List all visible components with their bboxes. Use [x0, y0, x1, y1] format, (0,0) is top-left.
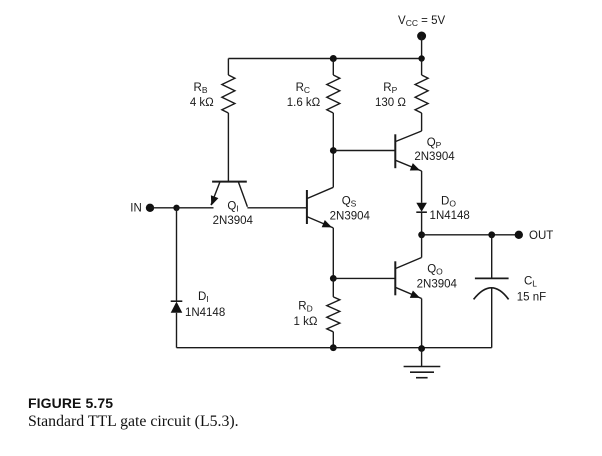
label QS 2N3904 — [330, 196, 371, 223]
junction QO emitter / ground — [418, 345, 425, 352]
ground — [404, 348, 441, 378]
capacitor CL — [474, 235, 509, 348]
transistor QS base bar — [306, 190, 308, 224]
wire VCC stem — [421, 36, 423, 59]
wire output row — [422, 234, 519, 236]
junction output / CL — [488, 231, 495, 238]
wire junction to QI emitter — [177, 207, 214, 209]
junction DO / QO collector / OUT — [418, 231, 425, 238]
svg-text:QO: QO — [427, 264, 443, 277]
svg-text:2N3904: 2N3904 — [213, 215, 254, 227]
junction QS emitter / RD / QO base — [330, 275, 337, 282]
svg-text:QI: QI — [227, 201, 238, 214]
svg-text:2N3904: 2N3904 — [330, 211, 371, 223]
label OUT — [529, 230, 553, 242]
output terminal OUT — [515, 231, 523, 239]
svg-text:15 nF: 15 nF — [517, 292, 546, 304]
svg-text:2N3904: 2N3904 — [417, 279, 458, 291]
transistor QP collector — [395, 131, 421, 142]
transistor QS collector — [307, 151, 333, 199]
label IN — [130, 203, 142, 215]
caption figure number — [28, 395, 113, 411]
label CL 15 nF — [517, 276, 546, 304]
svg-text:DI: DI — [198, 291, 209, 304]
svg-text:RC: RC — [296, 82, 310, 95]
diode DO — [416, 203, 427, 235]
label QO 2N3904 — [417, 264, 458, 291]
wire top rail — [228, 58, 421, 60]
svg-text:2N3904: 2N3904 — [414, 151, 455, 163]
wire DI top — [176, 208, 178, 301]
junction IN / DI — [173, 205, 179, 211]
label VCC = 5V — [398, 15, 445, 28]
resistor RB — [222, 59, 235, 182]
label DI 1N4148 — [185, 291, 225, 319]
svg-text:1 kΩ: 1 kΩ — [294, 316, 318, 328]
wire bottom rail — [177, 347, 492, 349]
transistor QO collector — [395, 235, 421, 269]
transistor Q1 emitter — [211, 182, 220, 205]
svg-text:VCC = 5V: VCC = 5V — [398, 15, 445, 28]
svg-text:QS: QS — [342, 196, 357, 209]
svg-text:QP: QP — [427, 137, 442, 150]
svg-text:1.6 kΩ: 1.6 kΩ — [287, 97, 321, 109]
label RB 4 kOhm — [190, 82, 214, 109]
junction top rail at RC — [330, 55, 337, 62]
label RC 1.6 kOhm — [287, 82, 321, 109]
resistor RC — [327, 59, 340, 151]
svg-text:1N4148: 1N4148 — [430, 210, 470, 222]
svg-text:IN: IN — [130, 203, 142, 215]
transistor Q1 collector — [239, 182, 248, 207]
svg-text:130 Ω: 130 Ω — [375, 97, 406, 109]
wire node to QP base — [333, 150, 395, 152]
transistor QP base bar — [394, 134, 396, 168]
wire IN to junction — [150, 207, 177, 209]
caption text — [28, 413, 239, 431]
junction top rail at RP — [418, 55, 424, 61]
resistor RD — [327, 278, 340, 347]
power terminal VCC — [417, 32, 426, 41]
transistor QO emitter — [395, 287, 421, 347]
svg-text:OUT: OUT — [529, 230, 553, 242]
input terminal IN — [146, 204, 154, 212]
wire Q1 collector to QS base — [247, 207, 307, 209]
svg-text:RP: RP — [383, 82, 397, 95]
transistor QO base bar — [394, 261, 396, 295]
junction RD / bottom rail — [330, 344, 337, 351]
resistor RP — [415, 59, 428, 132]
label RD 1 kOhm — [294, 301, 318, 329]
label DO 1N4148 — [430, 196, 470, 223]
svg-text:CL: CL — [524, 276, 537, 289]
transistor QP emitter — [395, 160, 421, 203]
svg-text:4 kΩ: 4 kΩ — [190, 97, 214, 109]
junction RC / QS collector / QP base — [330, 147, 337, 154]
wire node to QO base — [333, 277, 395, 279]
svg-text:DO: DO — [441, 196, 456, 209]
svg-text:1N4148: 1N4148 — [185, 307, 225, 319]
label RP 130 Ohm — [375, 82, 406, 109]
transistor QS emitter — [307, 217, 333, 279]
svg-text:RD: RD — [298, 301, 312, 314]
svg-text:RB: RB — [194, 82, 208, 95]
diode DI — [171, 301, 183, 348]
label Q1 2N3904 — [213, 201, 254, 228]
label QP 2N3904 — [414, 137, 455, 163]
transistor Q1 base bar — [212, 181, 247, 183]
